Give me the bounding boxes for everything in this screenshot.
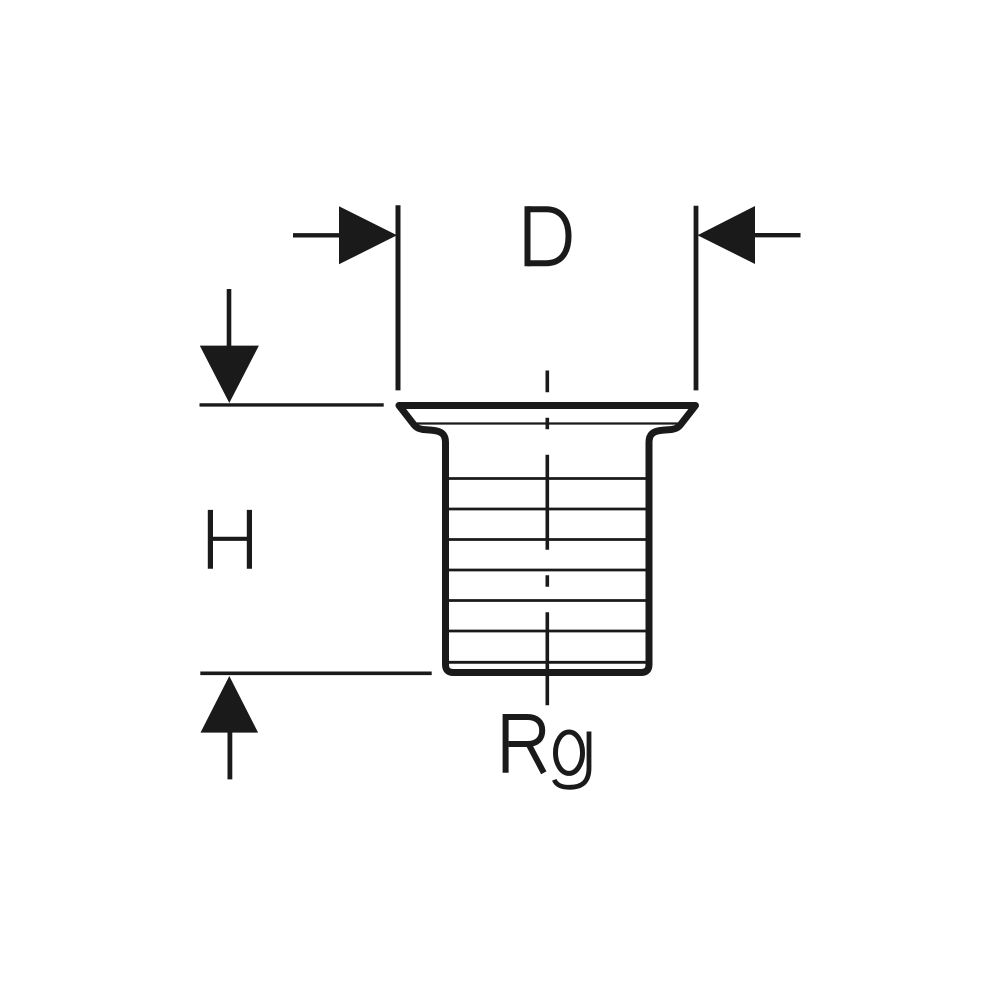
label Rg: R stem bbox=[503, 714, 509, 773]
H dimension: bottom reference line bbox=[200, 671, 431, 675]
H dimension: bottom arrowhead (up) bbox=[201, 676, 259, 733]
thread line 3 bbox=[449, 538, 646, 541]
label Rg: R bowl bbox=[506, 717, 543, 744]
label Rg: g bowl bbox=[556, 732, 583, 773]
label H: left stem bbox=[208, 510, 213, 569]
centerline (dash-dot) bbox=[545, 371, 549, 706]
D dimension: left extension line bbox=[396, 205, 401, 390]
thread line 4 bbox=[449, 569, 646, 572]
D dimension: left arrow tail bbox=[293, 233, 341, 237]
D dimension: right extension line bbox=[694, 206, 699, 391]
flange underside edge line bbox=[413, 422, 681, 424]
H dimension: top arrow tail bbox=[227, 289, 232, 347]
D dimension: left arrowhead bbox=[339, 206, 397, 264]
H dimension: top arrowhead (down) bbox=[200, 346, 259, 403]
label Rg: g stem and hook bbox=[554, 732, 589, 788]
label D: stem bbox=[525, 206, 531, 266]
thread line 7 bbox=[449, 661, 646, 664]
H dimension: bottom arrow tail bbox=[227, 732, 232, 779]
D dimension: right arrow tail bbox=[753, 233, 801, 237]
H dimension: top reference line bbox=[200, 403, 384, 406]
thread line 5 bbox=[449, 599, 646, 602]
label D: bowl bbox=[528, 209, 569, 263]
thread line 6 bbox=[449, 630, 646, 633]
fitting outline bbox=[399, 406, 696, 673]
label H: crossbar bbox=[212, 537, 248, 541]
label Rg: R leg bbox=[529, 744, 544, 773]
thread line 1 bbox=[449, 477, 646, 480]
D dimension: right arrowhead bbox=[698, 206, 756, 264]
thread line 2 bbox=[449, 508, 646, 511]
label H: right stem bbox=[247, 510, 252, 569]
